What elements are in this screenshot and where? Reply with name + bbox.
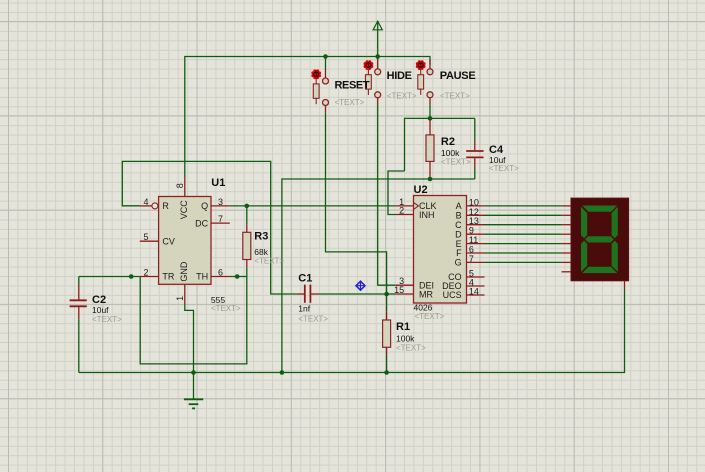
display pin E stub: [562, 243, 571, 245]
svg-text:R1: R1: [396, 321, 410, 333]
wire segment A U2 to display: [485, 205, 562, 207]
wire R2/C4 bottom to ground drop: [282, 179, 475, 373]
wire C1 right to MR junction: [319, 293, 387, 295]
svg-text:10uf: 10uf: [92, 305, 109, 315]
U2 pin 13 segment C stub: [467, 224, 485, 226]
svg-text:R2: R2: [441, 136, 455, 148]
capacitor C2: [70, 277, 87, 373]
U1 pin 8 VCC stub: [184, 178, 186, 197]
wire U1 pin4 loop to C1 left: [122, 161, 296, 294]
U2 pin 5 CO stub: [467, 276, 485, 278]
wire segment B U2 to display: [485, 214, 562, 216]
counter U2 4026 body: [414, 196, 467, 304]
wire TH to R3 column: [230, 276, 247, 278]
svg-text:R: R: [162, 201, 169, 211]
display pin DP stub: [562, 271, 571, 273]
svg-text:C: C: [455, 220, 462, 230]
U2 clock triangle: [414, 202, 419, 209]
op-amp/timer U1 555 body: [159, 197, 211, 285]
svg-text:<TEXT>: <TEXT>: [415, 312, 445, 321]
pushbutton HIDE: [364, 60, 381, 105]
resistor R3: [243, 206, 251, 268]
svg-text:C1: C1: [298, 272, 312, 284]
svg-text:4: 4: [143, 197, 148, 207]
display pin A stub: [562, 205, 571, 207]
svg-text:5: 5: [143, 232, 148, 242]
display pin G stub: [562, 261, 571, 263]
junction VCC rail / power arrow / HIDE: [375, 54, 380, 59]
U2 pin 11 segment E stub: [467, 243, 485, 245]
capacitor C1: [297, 285, 319, 303]
display segment c: [612, 241, 618, 272]
svg-text:Q: Q: [201, 201, 208, 211]
svg-text:<TEXT>: <TEXT>: [489, 164, 519, 173]
U1 pin 4 R stub with bubble: [140, 203, 158, 209]
U2 pin 6 segment F stub: [467, 252, 485, 254]
pushbutton RESET: [311, 69, 328, 112]
svg-text:<TEXT>: <TEXT>: [211, 304, 241, 313]
svg-text:MR: MR: [419, 290, 433, 300]
svg-text:INH: INH: [419, 210, 435, 220]
junction R2 bottom: [428, 177, 433, 182]
U1 pin 1 GND stub: [184, 284, 186, 303]
wire INH link with jog: [388, 171, 405, 215]
wire RESET feeder from rail: [325, 57, 327, 70]
svg-text:7: 7: [469, 254, 474, 264]
svg-text:HIDE: HIDE: [387, 70, 412, 82]
svg-text:6: 6: [218, 268, 223, 278]
wire segment E U2 to display: [485, 243, 562, 245]
U2 pin 10 segment A stub: [467, 205, 485, 207]
svg-text:<TEXT>: <TEXT>: [396, 344, 426, 353]
junction TH: [235, 274, 240, 279]
display segment b: [612, 207, 618, 238]
U2 pin 3 DEI stub: [396, 284, 414, 286]
display segment a: [582, 206, 617, 212]
svg-text:TH: TH: [196, 272, 208, 282]
junction ground rail / R2 C4 drop: [280, 370, 285, 375]
svg-text:R3: R3: [254, 231, 268, 243]
wire segment F U2 to display: [485, 252, 562, 254]
wire segment G U2 to display: [485, 261, 562, 263]
wire MR junction to U2 MR pin: [387, 293, 396, 295]
display segment g: [585, 236, 614, 242]
wire U1 GND pin to ground rail: [185, 304, 194, 373]
svg-text:1nf: 1nf: [298, 303, 310, 313]
wire TR row from C2: [79, 276, 140, 278]
wire VCC rail from U1 pin8 to PAUSE: [185, 57, 430, 178]
power symbol VCC arrow: [373, 21, 382, 56]
svg-text:13: 13: [469, 216, 479, 226]
U1 pin 3 Q stub: [211, 205, 230, 207]
svg-text:GND: GND: [179, 261, 189, 282]
svg-text:G: G: [455, 258, 462, 268]
svg-text:U2: U2: [414, 184, 428, 196]
wire segment D U2 to display: [485, 233, 562, 235]
wire R3 bottom U-loop to TR: [140, 268, 247, 364]
svg-text:<TEXT>: <TEXT>: [440, 92, 470, 101]
junction TR: [129, 274, 134, 279]
svg-text:UCS: UCS: [443, 290, 462, 300]
svg-text:<TEXT>: <TEXT>: [254, 257, 284, 266]
display segment d: [582, 267, 617, 273]
7-segment display DS1 body: [571, 198, 629, 281]
display pin D stub: [562, 233, 571, 235]
resistor R1: [383, 294, 391, 373]
U2 pin 14 UCS stub: [467, 294, 485, 296]
wire HIDE bottom to U2 DEI: [378, 104, 396, 285]
display segment f: [581, 207, 587, 238]
svg-text:14: 14: [469, 287, 479, 297]
svg-text:<TEXT>: <TEXT>: [298, 314, 328, 323]
svg-text:15: 15: [394, 285, 404, 295]
junction VCC rail / RESET: [323, 54, 328, 59]
wire U1 pin4 feeder: [122, 205, 140, 207]
U2 pin 2 INH stub: [396, 214, 414, 216]
wire RESET bottom to MR junction: [326, 112, 387, 294]
wire display common to ground rail: [79, 290, 625, 373]
U2 pin 4 DEO stub: [467, 285, 485, 287]
display common pin stub: [624, 281, 626, 291]
display pin F stub: [562, 252, 571, 254]
junction MR / C1 / R1 / RESET: [384, 292, 389, 297]
svg-text:68k: 68k: [254, 247, 268, 257]
resistor R2: [426, 120, 434, 179]
svg-text:CV: CV: [162, 236, 175, 246]
wire segment C U2 to display: [485, 224, 562, 226]
pushbutton PAUSE: [416, 60, 433, 105]
svg-text:VCC: VCC: [179, 200, 189, 220]
junction ground rail / U1 GND: [191, 370, 196, 375]
U1 pin 6 TH stub: [211, 276, 230, 278]
svg-text:1: 1: [175, 296, 185, 301]
ground symbol: [184, 373, 203, 409]
svg-text:<TEXT>: <TEXT>: [92, 315, 122, 324]
capacitor C4: [466, 118, 483, 179]
U2 pin 7 segment G stub: [467, 261, 485, 263]
U1 pin 2 TR stub: [140, 276, 159, 278]
svg-text:<TEXT>: <TEXT>: [387, 92, 417, 101]
svg-text:TR: TR: [162, 272, 174, 282]
svg-text:8: 8: [175, 183, 185, 188]
wire HIDE feeder from rail: [377, 57, 379, 61]
U2 pin 9 segment D stub: [467, 233, 485, 235]
junction PAUSE / R2 top / C4 top: [428, 116, 433, 121]
display segment e: [581, 241, 587, 272]
wire PAUSE to R2/C4 top rail: [429, 104, 431, 118]
U2 pin 1 CLK stub: [396, 205, 414, 207]
display pin C stub: [562, 224, 571, 226]
svg-text:DC: DC: [195, 218, 208, 228]
U1 pin 5 CV stub: [140, 240, 159, 242]
display pin B stub: [562, 214, 571, 216]
svg-text:<TEXT>: <TEXT>: [335, 98, 365, 107]
U1 pin 7 DC stub: [211, 222, 230, 224]
U2 pin 12 segment B stub: [467, 214, 485, 216]
wire U1 Q to U2 CLK: [230, 205, 396, 207]
svg-text:PAUSE: PAUSE: [440, 70, 476, 82]
svg-text:2: 2: [399, 206, 404, 216]
svg-text:3: 3: [218, 197, 223, 207]
svg-text:100k: 100k: [396, 333, 415, 343]
svg-text:C2: C2: [92, 294, 106, 306]
junction Q / R3 top: [245, 204, 250, 209]
svg-text:7: 7: [218, 214, 223, 224]
svg-text:<TEXT>: <TEXT>: [441, 157, 471, 166]
U2 pin 15 MR stub: [396, 293, 414, 295]
svg-text:RESET: RESET: [335, 79, 370, 91]
svg-text:U1: U1: [211, 177, 225, 189]
svg-text:2: 2: [143, 268, 148, 278]
wire R2/C4 top rail: [405, 118, 475, 171]
junction ground rail / R1: [384, 370, 389, 375]
origin cursor marker: [356, 281, 365, 290]
